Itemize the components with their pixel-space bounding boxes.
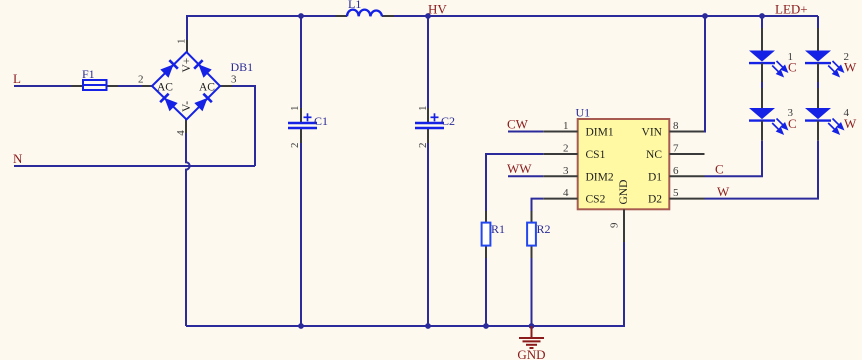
wire: LED string A top — [761, 16, 763, 28]
LED 3 — [749, 88, 797, 141]
diode bottom-left — [160, 94, 178, 112]
wire: LED string B top (corner from rail) — [817, 16, 819, 28]
wire: top rail left segment — [186, 15, 336, 17]
svg-text:7: 7 — [673, 143, 679, 155]
svg-text:HV: HV — [428, 2, 447, 17]
svg-text:W: W — [844, 116, 857, 131]
svg-text:CW: CW — [507, 117, 529, 132]
diamond body — [152, 52, 220, 120]
svg-text:CS2: CS2 — [586, 194, 606, 206]
wire: pin9 to bottom rail — [623, 242, 625, 327]
wire: bridge pin4 column down to bottom rail with hop over N wire — [186, 133, 190, 326]
svg-text:F1: F1 — [82, 67, 95, 81]
pin 8 VIN — [669, 131, 704, 133]
svg-text:GND: GND — [517, 347, 545, 360]
junction C1 bottom — [298, 323, 304, 329]
svg-text:4: 4 — [563, 187, 569, 199]
svg-text:DB1: DB1 — [231, 60, 254, 74]
wire: VIN column from top rail — [704, 16, 706, 133]
svg-text:LED+: LED+ — [775, 2, 808, 17]
wire: L input to fuse — [14, 85, 71, 87]
pin 2 stub (AC left) — [142, 85, 152, 87]
diode top-left — [160, 60, 178, 78]
svg-text:DIM2: DIM2 — [586, 171, 614, 183]
svg-text:1: 1 — [563, 120, 569, 132]
svg-text:R2: R2 — [537, 222, 551, 236]
wire: C2 column lower — [427, 143, 429, 326]
svg-text:1: 1 — [417, 106, 429, 112]
junction C2 bottom — [425, 323, 431, 329]
junction R1 bottom — [483, 323, 489, 329]
svg-text:6: 6 — [673, 165, 679, 177]
wire: LED string B bottom to D2 — [705, 141, 819, 199]
wire: C1 column lower — [300, 143, 302, 326]
wire: pin2 to R1 — [486, 154, 543, 211]
wire: between LED2 and LED4 — [817, 82, 819, 88]
svg-text:1: 1 — [289, 106, 301, 112]
svg-text:C: C — [788, 116, 797, 131]
svg-text:DIM1: DIM1 — [586, 127, 614, 139]
svg-text:V-: V- — [181, 101, 193, 112]
pin 1 DIM1 — [543, 131, 578, 133]
junction C1 top — [298, 13, 304, 19]
wire: CW to pin1 — [508, 131, 543, 133]
svg-text:C1: C1 — [314, 114, 328, 128]
svg-text:NC: NC — [646, 149, 662, 161]
wire: fuse to bridge pin 2 — [118, 85, 142, 87]
svg-text:2: 2 — [563, 143, 569, 155]
svg-text:AC: AC — [199, 82, 215, 94]
svg-text:U1: U1 — [576, 106, 591, 120]
LED 4 — [805, 88, 857, 141]
wire: bottom rail — [186, 325, 624, 327]
wire: C2 column upper — [427, 16, 429, 108]
wire: bridge pin1 up to top rail — [186, 16, 188, 40]
wire: between LED1 and LED3 — [761, 82, 763, 88]
junction VIN column — [702, 13, 708, 19]
wire: LED string A bottom to D1 — [705, 141, 763, 177]
LED 1 — [749, 28, 797, 82]
svg-text:CS1: CS1 — [586, 149, 606, 161]
svg-text:C: C — [715, 162, 724, 177]
wire: C1 column upper — [300, 16, 302, 108]
svg-text:2: 2 — [138, 74, 144, 86]
pin 4 stub (V-) — [185, 119, 187, 133]
wire: N input — [14, 165, 255, 167]
svg-text:D1: D1 — [648, 171, 662, 183]
pin 3 DIM2 — [543, 175, 578, 177]
svg-text:V+: V+ — [181, 58, 193, 73]
pin 3 stub (AC right) — [220, 85, 232, 87]
svg-text:L1: L1 — [348, 0, 361, 11]
fuse F1 — [71, 67, 118, 90]
svg-text:AC: AC — [157, 82, 173, 94]
svg-text:GND: GND — [618, 180, 630, 205]
pin 7 NC — [669, 153, 704, 155]
wire: bridge pin3 to N line — [232, 86, 255, 166]
resistor R1 — [482, 211, 505, 258]
svg-text:D2: D2 — [648, 194, 662, 206]
svg-text:C2: C2 — [441, 114, 455, 128]
pin 5 D2 — [669, 198, 704, 200]
wire: R1 to bottom rail — [485, 258, 487, 326]
svg-text:C: C — [788, 60, 797, 75]
bridge rectifier DB1 — [138, 39, 253, 136]
capacitor C1 — [288, 106, 328, 149]
wire: R2 to bottom rail — [531, 258, 533, 326]
pin 4 CS2 — [543, 198, 578, 200]
svg-text:VIN: VIN — [642, 127, 663, 139]
LED 2 — [805, 28, 857, 82]
svg-text:N: N — [13, 151, 23, 166]
wire: WW to pin3 — [508, 175, 543, 177]
pin 1 stub (V+) — [186, 40, 188, 52]
capacitor C2 — [415, 106, 455, 149]
svg-text:W: W — [717, 184, 730, 199]
inductor L1 — [336, 0, 395, 16]
svg-text:R1: R1 — [491, 222, 505, 236]
junction LED string A top — [759, 13, 765, 19]
svg-text:9: 9 — [609, 222, 621, 228]
svg-text:5: 5 — [673, 187, 679, 199]
ground — [517, 326, 545, 360]
wire: pin4 to R2 — [532, 199, 544, 211]
svg-text:W: W — [844, 60, 857, 75]
svg-text:WW: WW — [507, 161, 532, 176]
pin 6 D1 — [669, 175, 704, 177]
svg-text:3: 3 — [231, 74, 237, 86]
IC U1 — [543, 106, 704, 243]
svg-text:1: 1 — [176, 39, 188, 45]
diode top-right — [194, 60, 212, 78]
svg-text:8: 8 — [673, 120, 679, 132]
junction R2 bottom / ground — [529, 323, 535, 329]
pin 2 CS1 — [543, 153, 578, 155]
junction HV node — [425, 13, 431, 19]
wire: top rail right segment — [394, 15, 818, 17]
pin 9 GND — [623, 209, 625, 242]
svg-text:2: 2 — [289, 143, 301, 149]
diode bottom-right — [194, 94, 212, 112]
svg-text:3: 3 — [563, 165, 569, 177]
resistor R2 — [527, 211, 550, 258]
svg-text:L: L — [13, 71, 21, 86]
